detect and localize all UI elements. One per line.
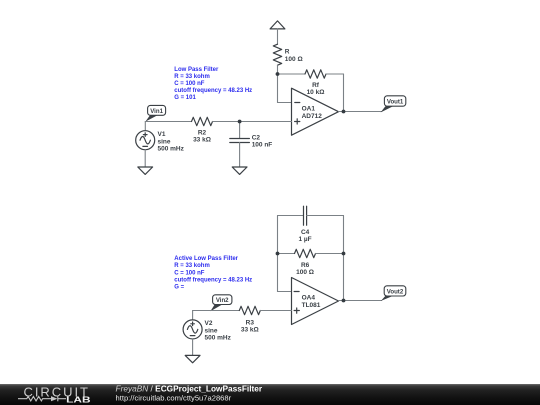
- svg-text:1 µF: 1 µF: [299, 236, 312, 243]
- node R6 left: [276, 252, 280, 256]
- flag Vout2: [381, 286, 406, 301]
- wire left rail to inverting input: [278, 102, 292, 104]
- svg-text:G = 101: G = 101: [174, 95, 196, 101]
- svg-text:AD712: AD712: [302, 113, 323, 120]
- ground below V2: [185, 355, 200, 362]
- svg-text:33 kΩ: 33 kΩ: [241, 327, 259, 334]
- voltage source V2 sine: [183, 320, 232, 342]
- svg-text:G =: G =: [174, 285, 184, 291]
- svg-text:cutoff frequency = 48.23 Hz: cutoff frequency = 48.23 Hz: [174, 277, 252, 283]
- wire R3 to op-amp + input: [260, 310, 291, 312]
- annotation Active Low Pass Filter (blue text, bottom): [174, 256, 252, 290]
- wire R6 right lead: [316, 253, 344, 255]
- svg-text:C = 100 nF: C = 100 nF: [174, 81, 205, 87]
- wire right rail down to output node: [343, 74, 345, 112]
- op-amp OA1 AD712: [292, 88, 339, 135]
- svg-text:Vout1: Vout1: [387, 99, 404, 106]
- wire R to node A: [277, 65, 279, 74]
- svg-text:C = 100 nF: C = 100 nF: [174, 270, 205, 276]
- resistor R6: [295, 249, 316, 276]
- voltage source V1 sine: [136, 131, 185, 153]
- flag Vin1: [145, 105, 165, 121]
- wire OA1 output to Vout1: [339, 111, 382, 113]
- logo resistor-diode glyph: [18, 396, 66, 401]
- svg-text:R = 33 kohm: R = 33 kohm: [174, 74, 210, 80]
- flag Vout1: [381, 96, 406, 113]
- resistor R3: [239, 306, 260, 333]
- ground below V1: [138, 167, 153, 174]
- wire node A down left rail: [277, 74, 279, 103]
- wire node A to Rf: [278, 73, 306, 75]
- ground below C2: [232, 167, 247, 174]
- wire Vin1 node to R2: [145, 121, 191, 123]
- svg-text:100 Ω: 100 Ω: [285, 56, 303, 63]
- wire V1 top lead: [144, 122, 146, 131]
- wire OA4 output to Vout2: [339, 300, 382, 302]
- node R6 right: [342, 252, 346, 256]
- svg-text:Low Pass Filter: Low Pass Filter: [174, 67, 219, 73]
- svg-text:100 Ω: 100 Ω: [296, 269, 314, 276]
- svg-text:Vout2: Vout2: [387, 288, 404, 295]
- capacitor C2: [230, 135, 273, 149]
- wire right rail down to output node OA4: [343, 216, 345, 301]
- node A (R / Rf / inverting input junction): [276, 72, 280, 76]
- wire V1 bottom lead: [144, 150, 146, 167]
- wire C4 branch right: [307, 215, 344, 217]
- svg-text:Vin2: Vin2: [216, 297, 229, 304]
- node C2 junction: [238, 120, 242, 124]
- svg-text:R6: R6: [301, 262, 310, 269]
- svg-text:http://circuitlab.com/ctty5u7a: http://circuitlab.com/ctty5u7a2868r: [116, 394, 232, 403]
- wire C2 bottom lead: [239, 143, 241, 168]
- op-amp OA4 TL081: [292, 278, 339, 325]
- wire R6 left lead: [278, 253, 295, 255]
- resistor R2: [192, 117, 213, 143]
- svg-text:500 mHz: 500 mHz: [158, 146, 185, 153]
- svg-text:OA1: OA1: [302, 106, 316, 113]
- svg-text:Rf: Rf: [312, 82, 320, 89]
- svg-text:33 kΩ: 33 kΩ: [193, 137, 211, 144]
- svg-text:cutoff frequency = 48.23 Hz: cutoff frequency = 48.23 Hz: [174, 88, 252, 94]
- flag Vin2: [210, 295, 232, 311]
- svg-text:OA4: OA4: [302, 295, 316, 302]
- ground (flipped up) top of R: [270, 21, 285, 29]
- wire C4 branch left: [278, 215, 304, 217]
- wire V2 top lead: [192, 311, 194, 320]
- svg-text:Active Low Pass Filter: Active Low Pass Filter: [174, 256, 238, 262]
- wire C2 top lead: [239, 122, 241, 139]
- svg-text:V2: V2: [205, 320, 213, 327]
- svg-text:500 mHz: 500 mHz: [205, 335, 232, 342]
- svg-text:R2: R2: [198, 129, 207, 136]
- wire V2 bottom lead: [192, 339, 194, 356]
- svg-text:TL081: TL081: [302, 302, 321, 309]
- output node dot OA4: [342, 299, 346, 303]
- svg-text:10 kΩ: 10 kΩ: [307, 89, 325, 96]
- svg-text:R: R: [285, 49, 290, 56]
- resistor R (vertical): [273, 44, 302, 65]
- svg-text:100 nF: 100 nF: [252, 142, 273, 149]
- svg-text:LAB: LAB: [66, 395, 90, 405]
- wire left rail (C4 to inverting input): [277, 216, 279, 292]
- svg-text:sine: sine: [205, 327, 218, 334]
- wire R2 to op-amp + input (through C2 node): [213, 121, 292, 123]
- wire ground to R: [277, 29, 279, 44]
- footer bar: [0, 384, 540, 405]
- wire V2 to R3: [193, 310, 240, 312]
- svg-text:V1: V1: [158, 131, 166, 138]
- capacitor C4: [299, 206, 312, 243]
- svg-text:Vin1: Vin1: [150, 108, 163, 115]
- resistor Rf (feedback): [305, 70, 326, 96]
- svg-text:C2: C2: [252, 135, 261, 142]
- svg-text:R3: R3: [246, 319, 255, 326]
- svg-text:FreyaBN / ECGProject_LowPassFi: FreyaBN / ECGProject_LowPassFilter: [116, 383, 263, 393]
- svg-text:sine: sine: [158, 138, 171, 145]
- svg-text:R = 33 kohm: R = 33 kohm: [174, 263, 210, 269]
- wire Rf to right rail: [326, 73, 344, 75]
- annotation Low Pass Filter (blue text, top): [174, 67, 252, 101]
- output node dot OA1: [342, 110, 346, 114]
- svg-text:C4: C4: [301, 229, 310, 236]
- wire inverting input lead OA4: [278, 291, 292, 293]
